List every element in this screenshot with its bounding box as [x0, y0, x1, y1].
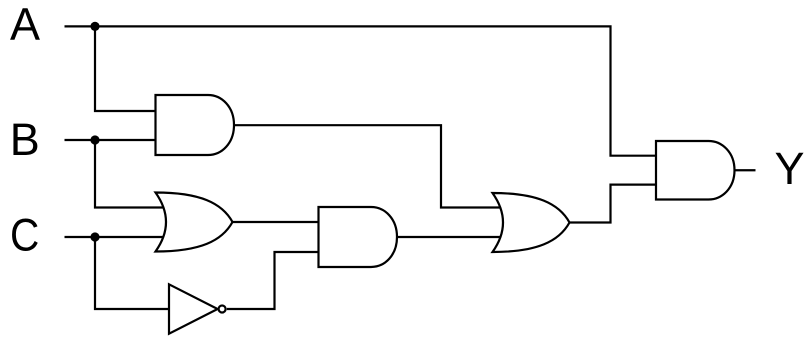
svg-text:C: C [10, 209, 39, 260]
svg-text:A: A [10, 0, 40, 50]
svg-text:Y: Y [775, 143, 805, 194]
svg-text:B: B [10, 114, 40, 165]
